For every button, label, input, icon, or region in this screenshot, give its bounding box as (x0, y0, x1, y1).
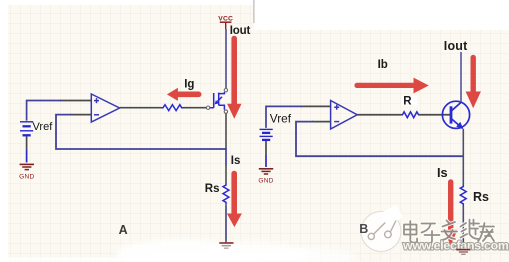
ground (A bottom, faded) (219, 243, 233, 248)
wire Rs to GND (A) (225, 204, 227, 243)
wire U2 +input from Vref (B) (266, 106, 331, 128)
svg-text:www.elecfans.com: www.elecfans.com (402, 239, 509, 253)
wire U2 -input feedback to Rs node (B) (296, 122, 463, 157)
svg-text:VCC: VCC (218, 15, 233, 22)
wire Vref to GND (A) (26, 137, 28, 163)
ground GND (B) (258, 169, 273, 185)
current arrow Ig (167, 88, 199, 101)
current arrow Is (A) head repaint (227, 214, 242, 228)
wire U1 output (120, 107, 161, 109)
op-amp U2 (331, 101, 358, 130)
panel divider line (253, 0, 254, 23)
svg-text:Iout: Iout (230, 25, 251, 37)
svg-text:R: R (403, 95, 412, 107)
pin circle Q1 source (224, 110, 227, 113)
wire Rs to GND (B) (462, 206, 464, 249)
svg-text:Rs: Rs (205, 183, 220, 195)
wire R to Q2 base (419, 114, 450, 116)
wire Rs to GND (A) visible through blob (225, 206, 227, 243)
wire U1 -input feedback to Rs node (56, 115, 226, 149)
current arrow Iout (B) (466, 58, 481, 109)
ground (B bottom, faded) (456, 250, 470, 255)
current arrow Is (B) (444, 182, 458, 246)
pin circle Q1 drain (224, 89, 227, 92)
svg-text:Rs: Rs (473, 190, 489, 204)
wire Q1 source to Rs (A) (225, 113, 227, 183)
watermark CJK text dian-zi-fa-shao-you (approximated strokes) (404, 220, 494, 245)
battery Vref (B) (260, 129, 273, 140)
svg-text:GND: GND (258, 178, 273, 185)
wire VCC to Q1 drain (225, 29, 227, 88)
resistor Rg (gate series) (161, 105, 183, 111)
svg-text:Ig: Ig (184, 78, 194, 90)
wire Vref to GND (B) (265, 141, 267, 167)
right panel grid background (254, 30, 509, 262)
power VCC (218, 15, 233, 29)
watermark logo circle (361, 205, 404, 252)
white eraser blob bottom-left (0, 240, 355, 262)
svg-text:Vref: Vref (270, 111, 292, 125)
svg-text:Vref: Vref (33, 121, 54, 133)
wire Q2 collector up (460, 52, 462, 102)
svg-text:B: B (359, 222, 368, 236)
resistor Rs (B) (460, 185, 466, 206)
wire U2 output (357, 114, 401, 116)
op-amp U1 (91, 94, 119, 122)
current arrow Is (A) (227, 174, 242, 228)
resistor R (base series) (401, 112, 420, 118)
label R background (401, 96, 418, 106)
svg-text:GND: GND (19, 173, 34, 180)
svg-text:Is: Is (437, 165, 448, 180)
transistor Q2 NPN (442, 101, 469, 129)
wire Q2 emitter to Rs (B) (462, 129, 464, 185)
svg-text:Is: Is (231, 155, 241, 167)
battery Vref (A) (20, 122, 33, 136)
current arrow Iout (A) (227, 39, 241, 119)
svg-text:A: A (119, 223, 128, 237)
resistor Rs (A) (223, 184, 229, 205)
svg-text:Ib: Ib (378, 59, 388, 71)
current arrow Ib (357, 78, 429, 94)
ground GND (A) (19, 164, 34, 180)
wire Rg to Q1 gate (184, 107, 207, 109)
svg-text:Iout: Iout (444, 39, 468, 53)
transistor Q1 NMOS (210, 92, 225, 110)
left panel grid background (8, 5, 254, 262)
ground (A bottom, faded) repaint (219, 243, 233, 248)
wire U1 +input from Vref (A) (27, 101, 92, 121)
pin circle Q1 gate (206, 106, 209, 109)
